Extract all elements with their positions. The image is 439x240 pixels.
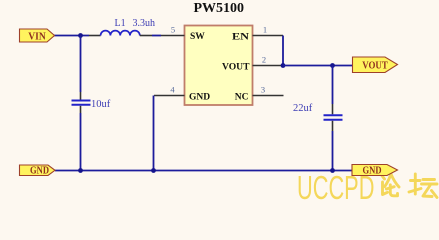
pin 3 NC stub (253, 95, 284, 97)
ground port GND right (352, 165, 398, 177)
inductor L1 (89, 31, 152, 36)
svg-text:22uf: 22uf (293, 103, 313, 114)
svg-text:L1: L1 (115, 18, 126, 29)
svg-text:10uf: 10uf (91, 99, 111, 110)
wire U1 GND vertical (153, 96, 155, 171)
svg-text:VIN: VIN (28, 30, 46, 42)
svg-text:EN: EN (232, 32, 249, 42)
svg-text:2: 2 (262, 55, 266, 65)
pin 4 GND stub (154, 95, 185, 97)
svg-text:VOUT: VOUT (362, 59, 388, 71)
watermark UCCPD论坛 (297, 168, 437, 206)
wire VOUT to flag (283, 65, 353, 67)
capacitor C2 22uf (324, 104, 343, 131)
svg-text:VOUT: VOUT (222, 62, 250, 72)
svg-text:5: 5 (171, 25, 175, 35)
pin 2 VOUT stub (253, 65, 284, 67)
svg-text:NC: NC (235, 92, 249, 102)
wire C2 from VOUT junction (332, 66, 334, 105)
wire EN vertical (282, 36, 284, 66)
power port VIN (20, 29, 55, 42)
node rail/C2 (330, 168, 335, 173)
pin 1 EN stub (253, 35, 284, 37)
node VOUT/C2 junction (330, 63, 335, 68)
svg-text:3.3uh: 3.3uh (133, 18, 156, 29)
power port VOUT (353, 57, 398, 73)
wire junction to C1 (80, 36, 82, 93)
svg-text:3: 3 (261, 85, 265, 95)
ground port GND left (20, 165, 56, 177)
node junction VIN/C1 (78, 33, 83, 38)
capacitor C1 10uf (72, 92, 91, 113)
svg-text:GND: GND (189, 92, 210, 102)
svg-text:1: 1 (263, 25, 267, 35)
svg-text:GND: GND (30, 165, 49, 177)
svg-text:PW5100: PW5100 (194, 1, 245, 16)
wire VIN to inductor (54, 35, 89, 37)
pin 5 SW stub (161, 35, 185, 37)
wire C1 to rail (80, 113, 82, 171)
svg-text:GND: GND (363, 165, 382, 177)
svg-text:SW: SW (190, 32, 205, 42)
node rail/C1 (78, 168, 83, 173)
wire ground rail (55, 170, 352, 172)
node EN/VOUT junction (281, 63, 286, 68)
op-amp U1 PW5100 body (185, 26, 253, 106)
node rail/U1 GND (151, 168, 156, 173)
wire C2 to rail (332, 131, 334, 171)
wire inductor to SW pin (152, 35, 161, 37)
